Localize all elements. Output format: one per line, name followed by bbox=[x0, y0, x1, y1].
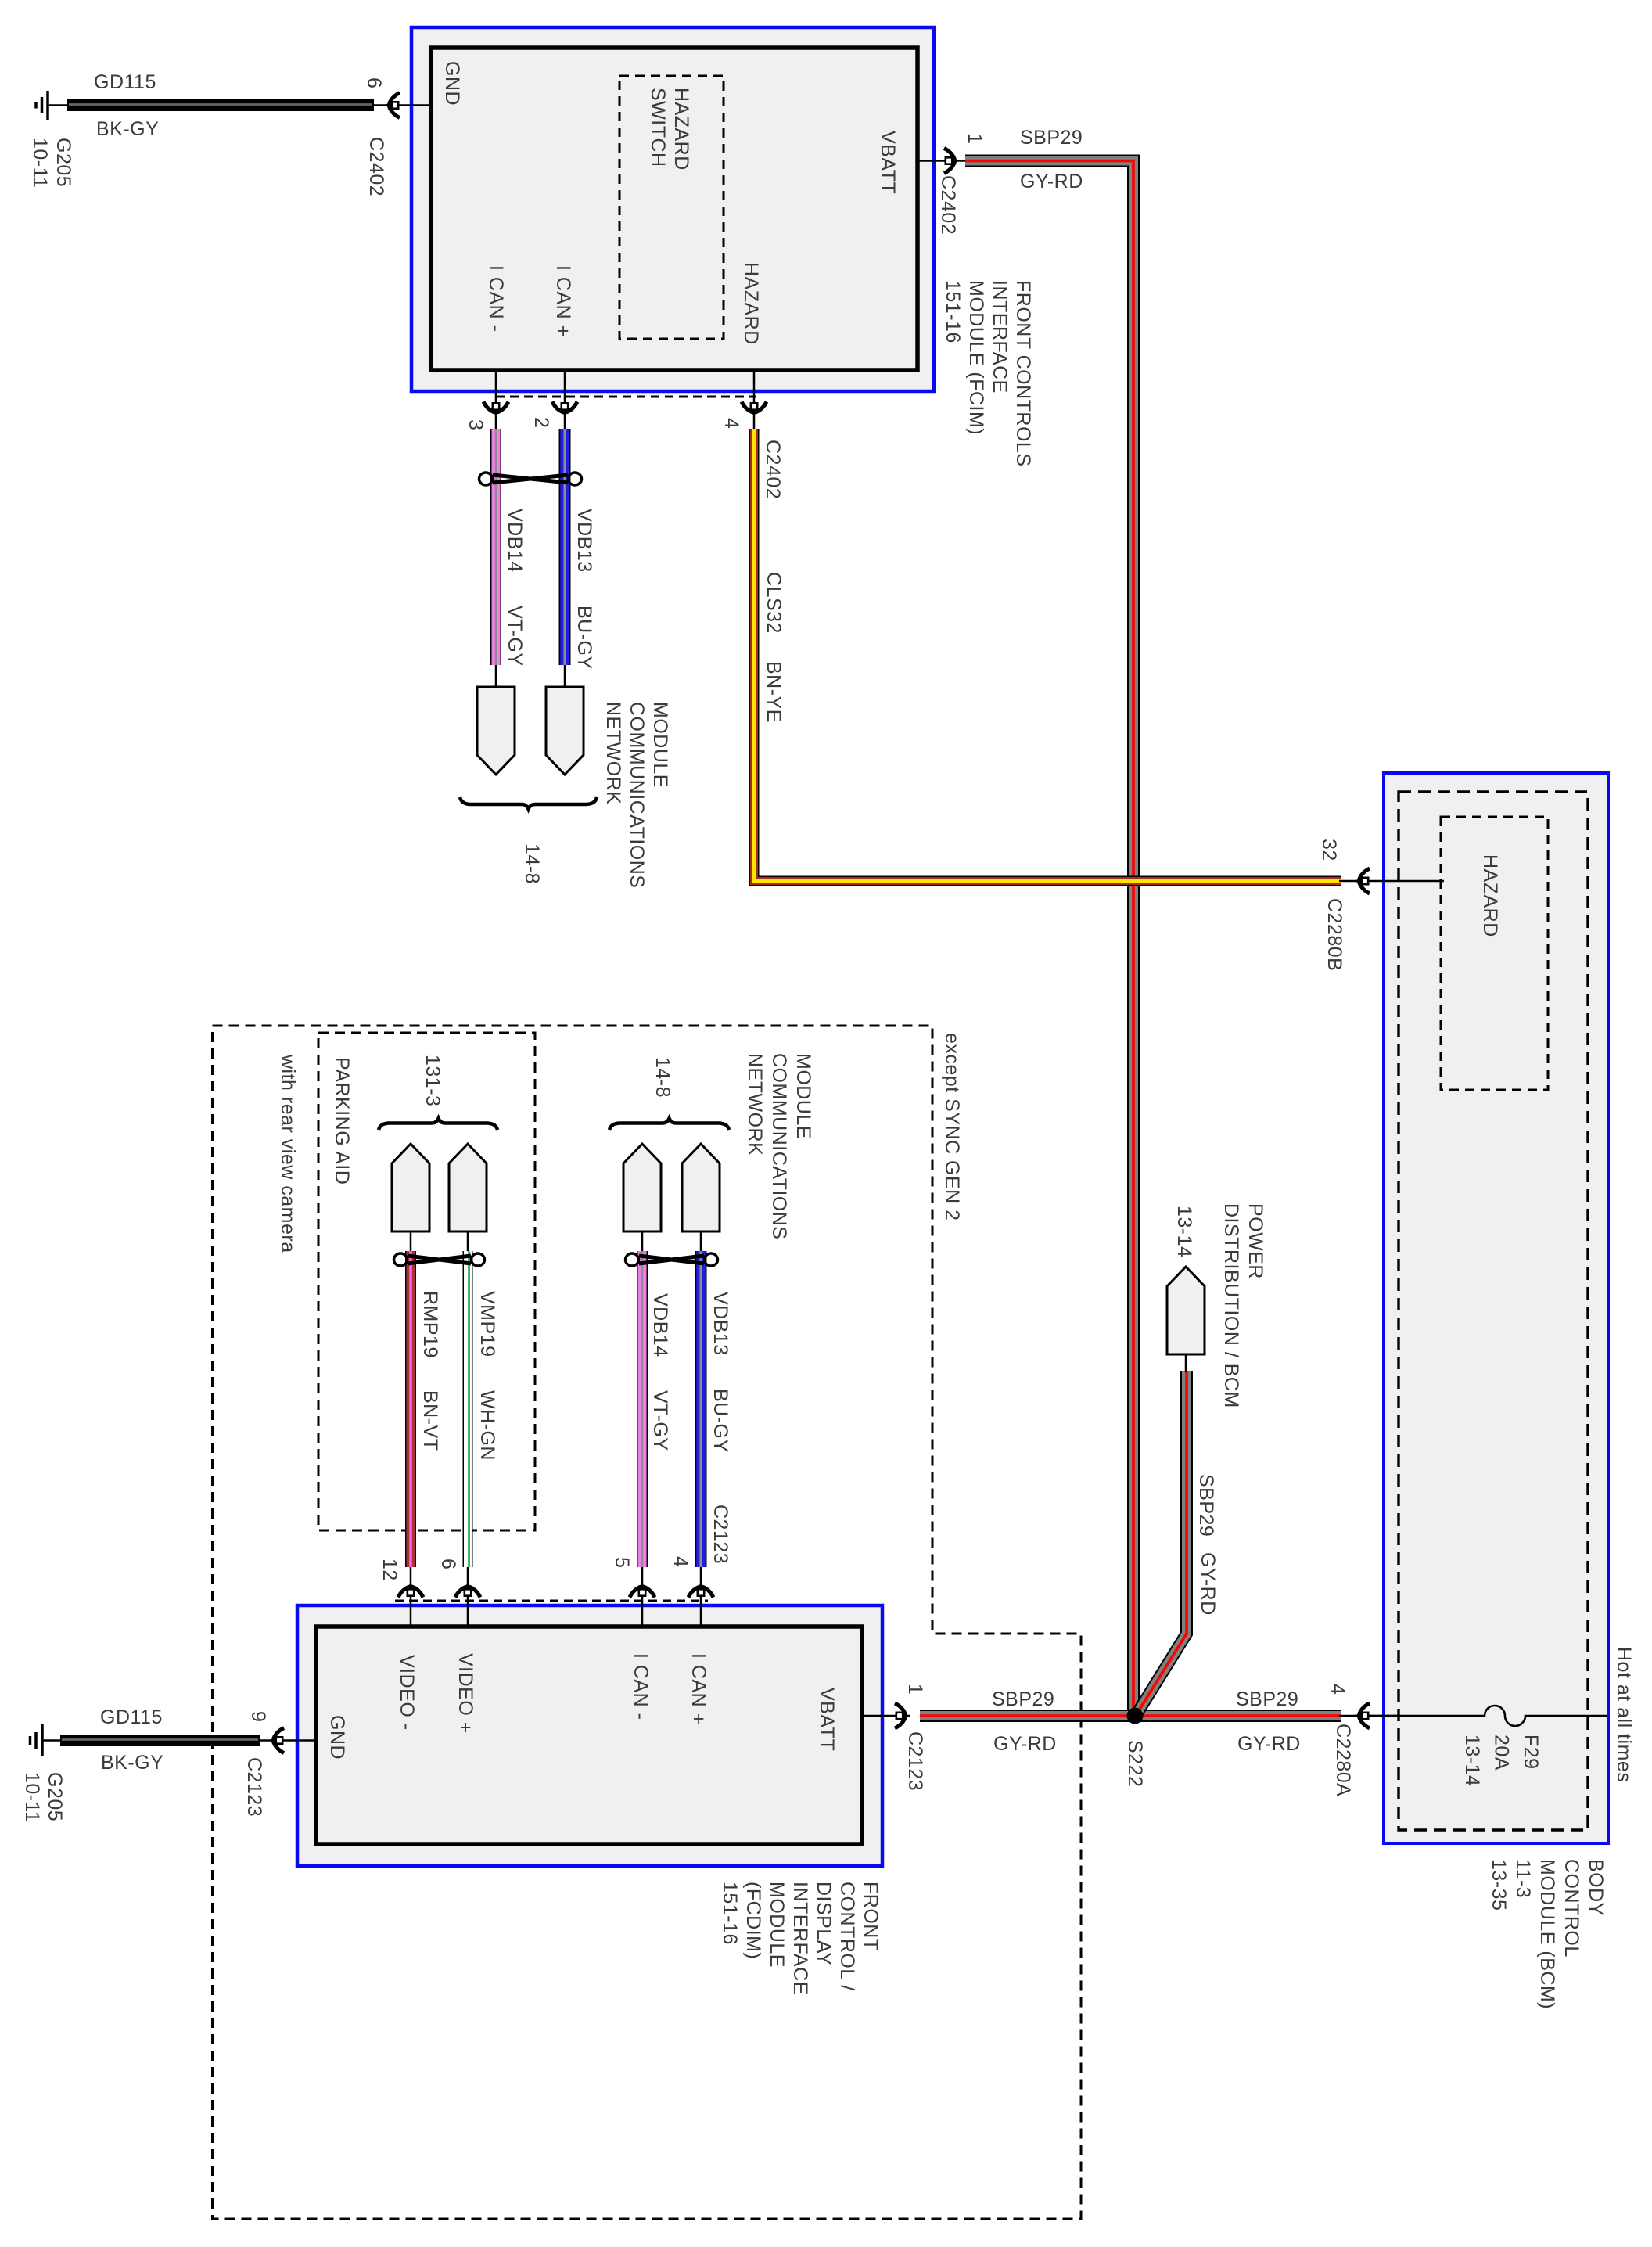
splice S222 bbox=[1124, 1708, 1146, 1788]
connector C2402 pin 1 (VBATT) bbox=[918, 133, 986, 235]
svg-text:VBATT: VBATT bbox=[816, 1688, 838, 1751]
svg-text:PARKING AID: PARKING AID bbox=[331, 1057, 353, 1185]
svg-text:VDB14: VDB14 bbox=[649, 1293, 671, 1357]
svg-text:13-14: 13-14 bbox=[1173, 1206, 1195, 1257]
module BCM box bbox=[1384, 773, 1608, 1843]
svg-text:C2402: C2402 bbox=[937, 175, 959, 235]
svg-text:C2123: C2123 bbox=[709, 1505, 731, 1564]
svg-text:I CAN -: I CAN - bbox=[485, 265, 507, 332]
svg-text:GY-RD: GY-RD bbox=[1020, 171, 1083, 192]
svg-text:VBATT: VBATT bbox=[877, 131, 899, 194]
connector C2123 pin 5 (I CAN -) bbox=[611, 1557, 655, 1627]
svg-text:SBP29: SBP29 bbox=[992, 1688, 1054, 1710]
svg-text:VIDEO -: VIDEO - bbox=[396, 1655, 418, 1731]
connector C2402 dashed line bbox=[496, 396, 756, 398]
svg-text:4: 4 bbox=[670, 1556, 691, 1567]
svg-text:SBP29: SBP29 bbox=[1195, 1474, 1217, 1537]
ground G205 (top) bbox=[29, 91, 74, 189]
BCM hazard dashed box bbox=[1441, 817, 1548, 1090]
svg-text:GY-RD: GY-RD bbox=[1197, 1552, 1219, 1616]
off-page connector arrows: module communications network (bottom) bbox=[623, 1053, 814, 1252]
svg-text:6: 6 bbox=[437, 1559, 459, 1569]
svg-text:BU-GY: BU-GY bbox=[709, 1389, 731, 1453]
dashed region: with rear view camera / except SYNC GEN 2 bbox=[213, 1026, 1082, 2219]
svg-text:BN-YE: BN-YE bbox=[763, 661, 785, 723]
connector C2280B pin 32 bbox=[1318, 839, 1444, 971]
wire CLS32 BN-YE (FCIM HAZARD to BCM C2280B) bbox=[754, 429, 1341, 881]
FCDIM pin labels bbox=[326, 1653, 838, 1760]
svg-text:I CAN +: I CAN + bbox=[552, 265, 574, 337]
svg-text:1: 1 bbox=[964, 133, 986, 144]
twisted pair symbol (parking aid) bbox=[394, 1253, 485, 1266]
svg-text:VDB13: VDB13 bbox=[709, 1292, 731, 1356]
svg-text:with rear view camera: with rear view camera bbox=[277, 1054, 299, 1253]
svg-text:VDB13: VDB13 bbox=[573, 509, 595, 573]
svg-text:SBP29: SBP29 bbox=[1020, 127, 1083, 149]
connector C2123 dashed line bbox=[395, 1600, 708, 1602]
svg-text:131-3: 131-3 bbox=[422, 1055, 444, 1106]
svg-text:VT-GY: VT-GY bbox=[649, 1390, 671, 1451]
wire VDB14 VT-GY (FCIM pin 3) bbox=[496, 429, 526, 667]
svg-text:GND: GND bbox=[326, 1715, 348, 1760]
wire VDB13 BU-GY (FCIM pin 2) bbox=[565, 429, 595, 670]
off-page connector arrows: parking aid pair bbox=[392, 1144, 487, 1252]
svg-text:C2123: C2123 bbox=[904, 1731, 926, 1791]
svg-text:1: 1 bbox=[904, 1684, 926, 1695]
dashed region: parking aid bbox=[318, 1033, 535, 1530]
twisted pair symbol (top) bbox=[479, 473, 582, 485]
svg-text:4: 4 bbox=[720, 418, 742, 429]
svg-text:VDB14: VDB14 bbox=[504, 509, 526, 573]
svg-text:S222: S222 bbox=[1124, 1740, 1146, 1787]
svg-text:C2280A: C2280A bbox=[1332, 1724, 1354, 1796]
connector C2280A pin 4 bbox=[1327, 1684, 1400, 1796]
wire GD115 BK-GY (top) bbox=[67, 71, 386, 140]
brace and page ref 131-3 bbox=[379, 1055, 497, 1130]
off-page connector: POWER DISTRIBUTION / BCM bbox=[1167, 1203, 1266, 1408]
FCIM pin labels bbox=[441, 61, 899, 345]
twisted pair symbol (module comms bottom) bbox=[626, 1253, 718, 1266]
svg-text:GY-RD: GY-RD bbox=[993, 1733, 1057, 1755]
svg-text:G20510-11: G20510-11 bbox=[21, 1772, 66, 1823]
wire SBP29 GY-RD branch (S222 to power distribution) bbox=[1137, 1371, 1219, 1714]
svg-text:GY-RD: GY-RD bbox=[1237, 1733, 1301, 1755]
svg-text:BU-GY: BU-GY bbox=[573, 606, 595, 670]
wire VDB13 BU-GY (FCDIM pin 4) bbox=[701, 1251, 731, 1567]
svg-text:GD115: GD115 bbox=[100, 1706, 163, 1728]
svg-text:I CAN +: I CAN + bbox=[688, 1653, 709, 1725]
svg-text:HAZARD: HAZARD bbox=[1479, 854, 1501, 937]
svg-text:4: 4 bbox=[1327, 1684, 1349, 1695]
svg-text:VIDEO +: VIDEO + bbox=[454, 1653, 476, 1734]
wire SBP29 GY-RD (S222 to BCM C2280A) bbox=[1135, 1688, 1341, 1755]
wire RMP19 BN-VT (video -) bbox=[411, 1251, 441, 1567]
svg-text:I CAN -: I CAN - bbox=[630, 1653, 652, 1720]
svg-text:RMP19: RMP19 bbox=[419, 1291, 441, 1358]
connector C2123 pin 4 (I CAN +) bbox=[670, 1505, 731, 1627]
svg-text:BK-GY: BK-GY bbox=[96, 118, 159, 140]
svg-text:BN-VT: BN-VT bbox=[419, 1390, 441, 1451]
svg-text:SBP29: SBP29 bbox=[1236, 1688, 1298, 1710]
svg-text:WH-GN: WH-GN bbox=[476, 1390, 498, 1461]
BCM module name label bbox=[1488, 1859, 1607, 2009]
svg-text:C2402: C2402 bbox=[762, 440, 784, 499]
brace and page ref 14-8 (top) bbox=[460, 797, 597, 884]
svg-text:5: 5 bbox=[611, 1557, 633, 1568]
svg-text:3: 3 bbox=[465, 419, 487, 430]
connector C2123 pin 1 (VBATT) bbox=[862, 1684, 926, 1791]
connector C2402 pin 4 (HAZARD) bbox=[720, 370, 784, 499]
FCDIM module name label bbox=[719, 1882, 882, 1995]
wire GD115 BK-GY (bottom) bbox=[60, 1706, 316, 1774]
svg-text:32: 32 bbox=[1318, 839, 1340, 861]
svg-text:VT-GY: VT-GY bbox=[504, 606, 526, 667]
svg-text:BK-GY: BK-GY bbox=[101, 1752, 163, 1774]
fuse F29 20A bbox=[1354, 1706, 1607, 1786]
svg-text:except SYNC GEN 2: except SYNC GEN 2 bbox=[941, 1033, 963, 1221]
svg-text:9: 9 bbox=[247, 1711, 269, 1722]
off-page connector arrows: module communications network (top) bbox=[477, 665, 671, 888]
connector C2402 pin 6 (GND) bbox=[363, 77, 431, 196]
svg-text:12: 12 bbox=[379, 1559, 400, 1581]
connector C2123 pin 6 (VIDEO +) bbox=[437, 1559, 480, 1627]
connector C2123 pin 12 (VIDEO -) bbox=[379, 1559, 423, 1627]
wire VDB14 VT-GY (FCDIM pin 5) bbox=[642, 1251, 671, 1567]
svg-text:C2402: C2402 bbox=[365, 137, 387, 196]
hazard switch dashed box bbox=[619, 76, 724, 339]
connector C2402 pin 3 (I CAN -) bbox=[465, 370, 508, 430]
svg-text:GND: GND bbox=[441, 61, 463, 106]
svg-text:Hot at all times: Hot at all times bbox=[1613, 1647, 1635, 1782]
module FCIM box bbox=[411, 27, 934, 391]
wire SBP29 GY-RD (FCIM VBATT to corner to S222) bbox=[965, 127, 1133, 1713]
wire VMP19 WH-GN (video +) bbox=[468, 1251, 498, 1567]
module FCDIM box bbox=[297, 1605, 882, 1866]
svg-text:C2280B: C2280B bbox=[1323, 898, 1345, 971]
svg-text:6: 6 bbox=[363, 77, 385, 88]
brace and page ref 14-8 (bottom) bbox=[609, 1057, 729, 1130]
connector C2123 pin 9 (GND) bbox=[243, 1711, 284, 1817]
ground G205 (bottom) bbox=[21, 1724, 66, 1823]
Hot at all times label bbox=[1613, 1647, 1635, 1782]
svg-text:HAZARD: HAZARD bbox=[740, 262, 762, 345]
FCIM module name label bbox=[942, 280, 1034, 467]
svg-text:GD115: GD115 bbox=[94, 71, 156, 93]
wire SBP29 GY-RD (FCDIM VBATT to S222) bbox=[920, 1688, 1135, 1755]
svg-text:C2123: C2123 bbox=[243, 1757, 265, 1817]
svg-text:VMP19: VMP19 bbox=[476, 1291, 498, 1357]
svg-text:14-8: 14-8 bbox=[652, 1057, 673, 1098]
svg-text:CLS32: CLS32 bbox=[763, 572, 785, 634]
svg-text:14-8: 14-8 bbox=[521, 843, 543, 884]
svg-text:2: 2 bbox=[530, 417, 552, 428]
connector C2402 pin 2 (I CAN +) bbox=[530, 370, 577, 429]
